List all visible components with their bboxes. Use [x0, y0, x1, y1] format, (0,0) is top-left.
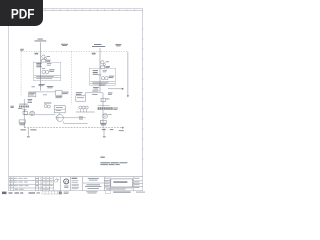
svg-text:PDF: PDF: [11, 5, 35, 21]
